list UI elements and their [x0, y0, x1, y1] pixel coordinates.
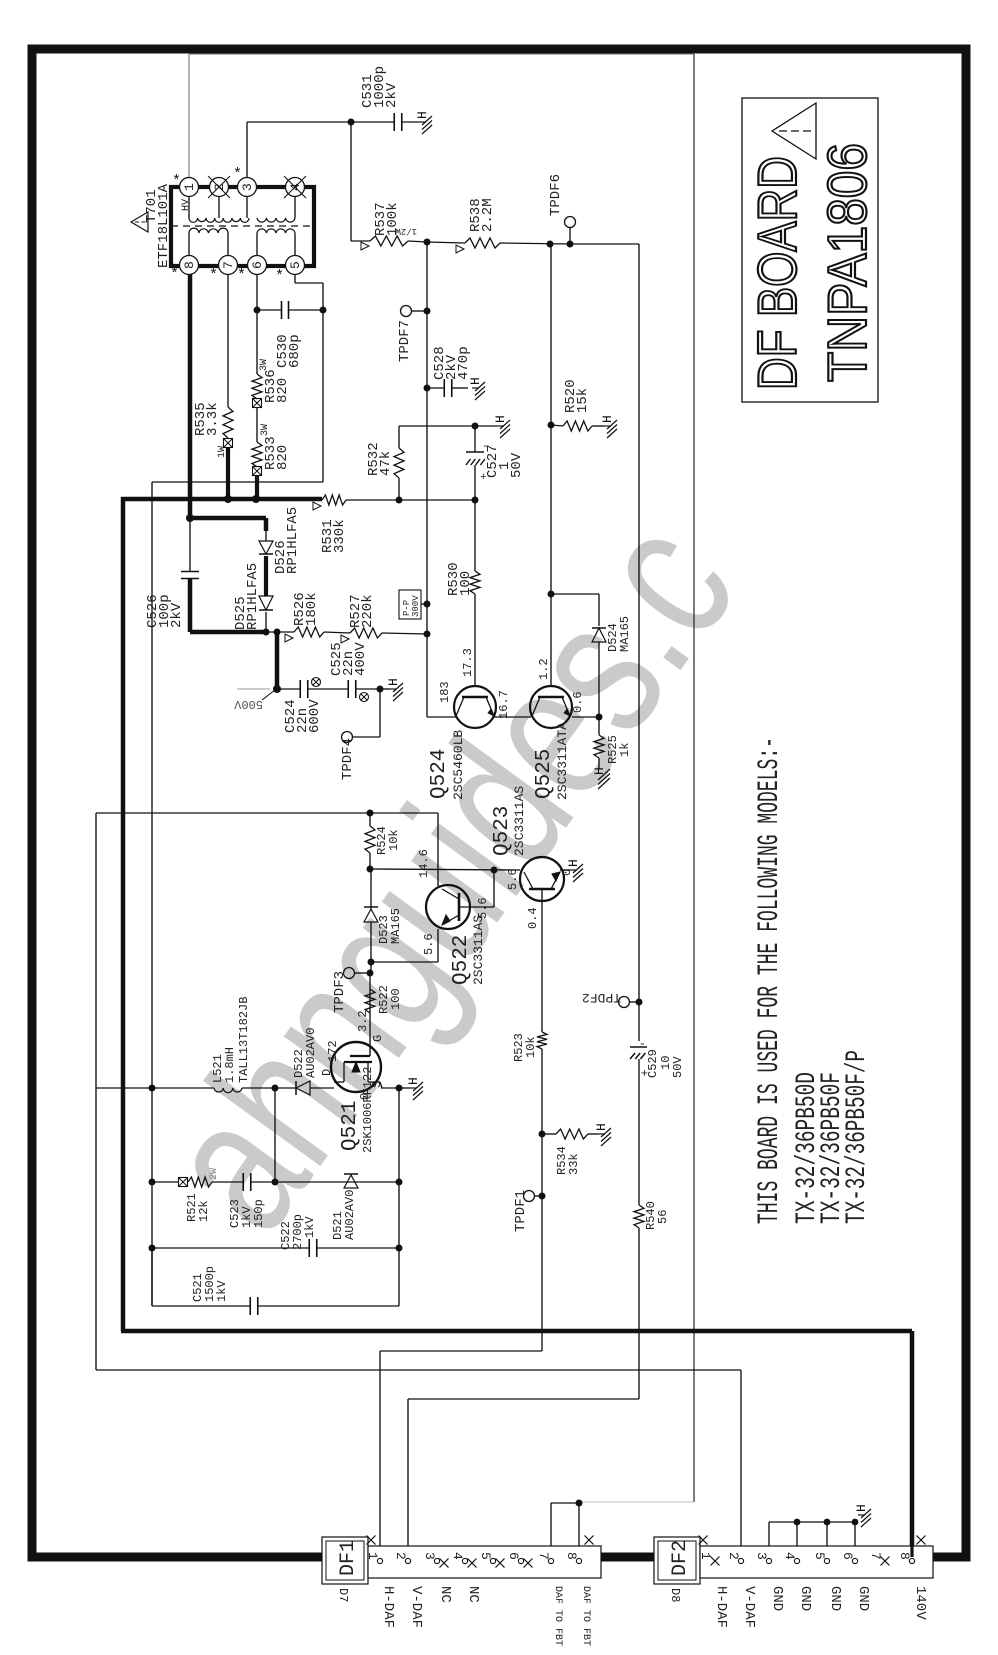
- wire Q521 source to ground node: [380, 1082, 382, 1088]
- svg-text:15k: 15k: [575, 388, 591, 413]
- diode D521 AU02AV0: [344, 1173, 358, 1175]
- wire R537 to R538: [408, 241, 427, 242]
- svg-text:MA165: MA165: [389, 908, 403, 944]
- capacitor C521 1500p 1kV: [151, 1248, 153, 1306]
- svg-text:680p: 680p: [287, 334, 303, 368]
- svg-text:2SK1006RF122: 2SK1006RF122: [361, 1067, 375, 1153]
- junction R520: [548, 422, 555, 429]
- svg-text:C529: C529: [646, 1049, 660, 1078]
- svg-text:*: *: [233, 166, 242, 183]
- svg-text:H-DAF: H-DAF: [380, 1586, 396, 1628]
- wire Q525 emitter node: [572, 716, 599, 718]
- svg-text:TX-32/36PB50F/P: TX-32/36PB50F/P: [842, 1050, 873, 1224]
- ground at R534: [588, 1133, 598, 1135]
- resistor R536 820 3W: [252, 374, 262, 399]
- svg-text:GND: GND: [855, 1586, 871, 1611]
- svg-text:8: 8: [182, 261, 197, 269]
- svg-text:NC: NC: [465, 1586, 481, 1603]
- wire pin3 to C531 node: [246, 122, 248, 178]
- svg-text:MA165: MA165: [618, 616, 632, 652]
- resistor R535 3.3k 1W: [223, 407, 233, 438]
- svg-text:1k: 1k: [618, 743, 632, 757]
- resistor R527 220k: [382, 633, 427, 634]
- wire to L521 line: [96, 1087, 152, 1089]
- svg-text:2W: 2W: [209, 1168, 220, 1180]
- wire Q524 emitter to Q525: [494, 716, 531, 718]
- svg-text:GND: GND: [797, 1586, 813, 1611]
- ground at R520: [592, 425, 604, 427]
- svg-text:33k: 33k: [567, 1153, 581, 1175]
- svg-text:3W: 3W: [259, 359, 270, 371]
- test point TPDF1: [524, 1191, 535, 1202]
- wire V-DAF bottom to DF2 pin2: [96, 1369, 741, 1371]
- wire pin6 down: [256, 274, 258, 374]
- svg-text:3.2: 3.2: [356, 1010, 370, 1032]
- svg-text:*: *: [237, 267, 246, 284]
- resistor R522 100: [365, 989, 375, 1013]
- svg-text:H: H: [415, 111, 430, 119]
- pin 5: [286, 256, 305, 275]
- svg-text:2kV: 2kV: [169, 602, 185, 628]
- wire DF2 ground pins: [768, 1522, 770, 1547]
- wire base Q524: [427, 716, 456, 718]
- wire Q525 base from node: [550, 594, 552, 686]
- svg-text:*: *: [170, 266, 179, 283]
- wire Q522 base: [459, 906, 494, 908]
- svg-text:C527: C527: [485, 444, 501, 478]
- junction: [254, 307, 261, 314]
- svg-text:-: -: [639, 1037, 646, 1051]
- capacitor C527 1 50V electrolytic: [474, 426, 476, 452]
- resistor R532 47k: [394, 448, 404, 478]
- svg-text:220k: 220k: [360, 594, 376, 628]
- svg-text:GND: GND: [827, 1586, 843, 1611]
- svg-text:300V: 300V: [411, 595, 421, 617]
- thick wire R533 to bus: [255, 475, 259, 499]
- capacitor C524 22n 600V: [277, 688, 300, 690]
- junction R533 bottom: [252, 495, 260, 503]
- diode D524 MA165: [592, 628, 606, 642]
- wire Q522 collector: [437, 813, 439, 886]
- svg-text:12k: 12k: [197, 1200, 211, 1222]
- svg-text:H: H: [854, 1504, 869, 1512]
- svg-text:2: 2: [726, 1552, 741, 1560]
- wire top of drive box: [96, 812, 438, 814]
- wire to DF1 pin1: [541, 1196, 543, 1351]
- junction: [149, 1085, 156, 1092]
- wire R536 to R533: [256, 407, 258, 442]
- svg-text:500V: 500V: [233, 697, 263, 711]
- svg-text:2SC5460LB: 2SC5460LB: [451, 730, 466, 800]
- svg-text:TPDF4: TPDF4: [340, 738, 356, 780]
- svg-text:1kV: 1kV: [215, 1280, 229, 1302]
- svg-text:820: 820: [275, 445, 291, 470]
- resistor R530 100: [474, 500, 476, 571]
- pin 4: [286, 178, 305, 197]
- junction: [274, 629, 281, 636]
- svg-text:2SC3311AS: 2SC3311AS: [471, 915, 486, 985]
- wire base line y869: [371, 869, 520, 870]
- svg-text:3: 3: [754, 1552, 769, 1560]
- junction: [636, 999, 643, 1006]
- svg-text:6: 6: [840, 1552, 855, 1560]
- thick wire down to C524 node: [275, 632, 280, 689]
- svg-text:*: *: [275, 268, 284, 285]
- wire Q523 emitter chain down: [541, 889, 543, 1032]
- svg-text:DAF TO FBT: DAF TO FBT: [580, 1586, 591, 1646]
- thick wire C526 bottom: [188, 579, 193, 632]
- resistor R521 12k 2W: [179, 1178, 188, 1187]
- svg-text:Q523: Q523: [491, 806, 514, 856]
- wire R538 to TPDF6 node: [500, 243, 570, 244]
- capacitor C528 2kV 470p: [427, 387, 444, 389]
- svg-text:6: 6: [250, 261, 265, 269]
- wire pin7 down: [227, 274, 229, 407]
- junction: [596, 714, 603, 721]
- svg-text:D: D: [320, 1069, 334, 1076]
- wire y1182: [152, 1181, 179, 1183]
- svg-text:H: H: [468, 377, 483, 385]
- junction: [396, 1085, 403, 1092]
- svg-text:AU02AV0: AU02AV0: [304, 1028, 318, 1078]
- svg-text:H: H: [600, 415, 615, 423]
- svg-text:D7: D7: [336, 1588, 350, 1602]
- junction: [396, 1179, 403, 1186]
- capacitor C526 100p 2kV: [189, 518, 191, 571]
- diode D522 AU02AV0: [275, 1087, 296, 1089]
- svg-text:0.6: 0.6: [571, 691, 585, 713]
- capacitor C531 1000p 2kV: [351, 121, 394, 123]
- svg-text:TPDF7: TPDF7: [397, 320, 413, 362]
- transistor Q521 2SK1006RF122 MOSFET: [331, 1042, 381, 1092]
- junction: [367, 866, 374, 873]
- capacitor C522 2700p 1kV: [152, 1247, 309, 1249]
- svg-text:0.4: 0.4: [526, 907, 540, 929]
- wire to R534 node: [541, 1049, 543, 1196]
- junction R535 bottom: [224, 495, 232, 503]
- svg-text:1: 1: [698, 1552, 713, 1560]
- wire DF1 pins 7-8 to FBT line: [550, 1503, 552, 1547]
- ground at C525: [380, 688, 390, 690]
- svg-text:DF1: DF1: [337, 1540, 360, 1576]
- junction: [424, 385, 431, 392]
- pin 1: [180, 178, 199, 197]
- junction: [424, 239, 431, 246]
- svg-text:2.2M: 2.2M: [480, 198, 496, 232]
- svg-text:8: 8: [564, 1552, 579, 1560]
- diode D523 MA165: [370, 869, 372, 909]
- svg-text:V-DAF: V-DAF: [741, 1586, 757, 1628]
- svg-text:H: H: [566, 859, 581, 867]
- svg-text:1/2W: 1/2W: [395, 226, 417, 236]
- junction: [368, 959, 375, 966]
- capacitor C530 680p: [257, 309, 281, 311]
- svg-text:TNPA1806: TNPA1806: [816, 143, 878, 382]
- svg-text:56: 56: [656, 1210, 670, 1224]
- transistor Q523 2SC3311AS: [520, 857, 564, 901]
- svg-text:*: *: [172, 173, 181, 190]
- svg-text:Q525: Q525: [533, 749, 556, 799]
- wire R531 to C527 node: [346, 499, 475, 501]
- test point TPDF6: [565, 217, 576, 228]
- resistor R520 15k: [551, 425, 563, 426]
- thick wire from pin8: [188, 274, 193, 518]
- svg-text:G: G: [371, 1035, 385, 1042]
- svg-text:V-DAF: V-DAF: [408, 1586, 424, 1628]
- resistor R525 1k: [598, 717, 600, 735]
- svg-text:1: 1: [182, 183, 197, 191]
- svg-text:16.7: 16.7: [497, 690, 511, 719]
- svg-text:DF2: DF2: [669, 1540, 692, 1576]
- ground at Q521: [399, 1087, 410, 1089]
- junction: [576, 1500, 583, 1507]
- svg-text:7: 7: [868, 1552, 883, 1560]
- wire 140V stub: [910, 1546, 913, 1557]
- wire TPDF3 node: [370, 962, 372, 973]
- svg-text:TPDF3: TPDF3: [332, 971, 348, 1013]
- svg-text:5.6: 5.6: [506, 868, 520, 890]
- junction: [149, 1245, 156, 1252]
- thick corner to diodes: [186, 514, 194, 522]
- svg-text:TPDF2: TPDF2: [582, 990, 621, 1005]
- junction: [472, 423, 479, 430]
- wire D525 node to R526: [266, 631, 294, 633]
- gray top line to pin1: [189, 53, 694, 55]
- svg-text:140V: 140V: [912, 1586, 928, 1620]
- svg-text:Q524: Q524: [428, 749, 451, 799]
- connector DF2: [654, 1537, 700, 1584]
- svg-text:H: H: [406, 1077, 421, 1085]
- diode D526 RP1HLFA5: [265, 529, 267, 541]
- thick 140V bus bottom: [121, 1329, 912, 1334]
- thick wire R535 to bus: [226, 447, 230, 499]
- capacitor C529 10 50V electrolytic: [630, 1046, 647, 1048]
- resistor R533 820 3W: [252, 442, 262, 467]
- resistor R523 10k: [537, 1032, 547, 1049]
- svg-text:7: 7: [536, 1552, 551, 1560]
- svg-text:100: 100: [389, 988, 403, 1010]
- svg-text:1.2: 1.2: [537, 658, 551, 680]
- transistor Q524 2SC5460LB: [454, 686, 496, 728]
- wire x427 rail lower: [426, 388, 428, 717]
- ground at Q523: [560, 869, 570, 871]
- warning triangle at T701: [131, 212, 148, 232]
- wire R532 top to ground: [399, 425, 475, 427]
- svg-text:TALL13T182JB: TALL13T182JB: [237, 997, 251, 1083]
- gray wire to DF1 pins 7-8: [579, 1501, 694, 1503]
- wire gate chain x370: [369, 973, 371, 1045]
- junction: [567, 241, 574, 248]
- svg-text:820: 820: [275, 378, 291, 403]
- svg-text:HV: HV: [181, 199, 192, 211]
- svg-text:5: 5: [478, 1552, 493, 1560]
- svg-text:400V: 400V: [353, 642, 369, 676]
- transistor Q525 2SC3311ATA: [530, 686, 572, 728]
- junction: [273, 685, 281, 693]
- svg-text:180k: 180k: [304, 592, 320, 626]
- junction: [320, 307, 327, 314]
- pin 8: [180, 256, 199, 275]
- test point TPDF2: [619, 997, 630, 1008]
- wire x399: [398, 1088, 400, 1248]
- junction: [396, 497, 403, 504]
- wire C531 node down: [350, 122, 352, 241]
- transformer T701 ETF18L101A: [171, 187, 314, 266]
- capacitor C523 1kV 150p: [242, 1173, 244, 1191]
- svg-text:*: *: [209, 267, 218, 284]
- svg-text:14.6: 14.6: [417, 849, 431, 878]
- transistor Q522 2SC3311AS: [426, 885, 470, 929]
- junction: [263, 629, 270, 636]
- svg-text:2: 2: [393, 1552, 408, 1560]
- svg-text:50V: 50V: [671, 1056, 685, 1078]
- thick bus from bus corner to R531: [121, 497, 126, 1331]
- resistor R537 100k 1/2W: [351, 240, 370, 242]
- junction: [377, 686, 384, 693]
- wire R540 to DF1 pin2: [638, 1228, 640, 1399]
- title block DF BOARD TNPA1806: [742, 98, 878, 402]
- svg-text:RP1HLFA5: RP1HLFA5: [285, 507, 301, 574]
- wire x427 rail upper: [426, 242, 428, 388]
- svg-text:183: 183: [438, 681, 452, 703]
- junction: [424, 308, 431, 315]
- wire right edge down: [693, 54, 695, 1502]
- svg-text:DAF TO FBT: DAF TO FBT: [552, 1586, 563, 1646]
- junction: [367, 970, 374, 977]
- svg-text:5: 5: [288, 261, 303, 269]
- test point TPDF4: [342, 732, 353, 743]
- svg-text:GND: GND: [769, 1586, 785, 1611]
- svg-text:1kV: 1kV: [303, 1216, 317, 1238]
- pin 2: [210, 178, 229, 197]
- inductor L521 1.8mH TALL13T182JB: [152, 1087, 214, 1089]
- svg-text:2SC3311ATA: 2SC3311ATA: [555, 722, 570, 800]
- svg-text:6: 6: [506, 1552, 521, 1560]
- junction: [548, 591, 555, 598]
- pin 6: [248, 256, 267, 275]
- wire x275: [274, 1088, 276, 1182]
- wire to right rail: [570, 243, 639, 245]
- svg-text:17.3: 17.3: [461, 648, 475, 677]
- resistor R531 330k: [322, 495, 346, 505]
- svg-text:330k: 330k: [332, 519, 348, 553]
- svg-text:ETF18L101A: ETF18L101A: [156, 183, 172, 268]
- junction: [272, 1085, 279, 1092]
- svg-text:5: 5: [812, 1552, 827, 1560]
- svg-text:10k: 10k: [524, 1036, 538, 1058]
- resistor R540 56: [634, 1205, 644, 1228]
- svg-text:3.3k: 3.3k: [205, 402, 221, 436]
- svg-text:3: 3: [240, 183, 255, 191]
- svg-text:Q522: Q522: [450, 935, 473, 985]
- svg-text:H: H: [386, 678, 401, 686]
- junction: [424, 631, 431, 638]
- wire node to D524: [551, 593, 599, 595]
- svg-text:NC: NC: [437, 1586, 453, 1603]
- svg-text:1.8mH: 1.8mH: [223, 1047, 237, 1083]
- wire right rail down x639: [638, 244, 640, 1041]
- wire secondary return: [152, 481, 323, 483]
- svg-text:8: 8: [897, 1552, 912, 1560]
- svg-text:470p: 470p: [456, 346, 472, 380]
- svg-text:50V: 50V: [509, 452, 525, 478]
- diode D525 RP1HLFA5: [259, 596, 273, 610]
- svg-text:5.6: 5.6: [422, 933, 436, 955]
- wire Q522 emitter to node: [437, 929, 439, 962]
- junction: [396, 1245, 403, 1252]
- pin 3: [238, 178, 257, 197]
- svg-text:100: 100: [458, 571, 474, 596]
- resistor R534 33k: [542, 1133, 556, 1135]
- wire V-DAF rail x96: [95, 813, 97, 1370]
- svg-text:TPDF1: TPDF1: [513, 1190, 529, 1232]
- ground at C527 top: [475, 425, 497, 427]
- junction: [539, 1193, 546, 1200]
- wire pin5 route: [294, 274, 296, 283]
- svg-text:47k: 47k: [378, 451, 394, 476]
- connector DF1: [322, 1537, 368, 1584]
- resistor R538 2.2M: [427, 242, 465, 243]
- svg-text:D8: D8: [668, 1588, 682, 1602]
- junction: [491, 867, 498, 874]
- svg-text:DF BOARD: DF BOARD: [746, 156, 808, 390]
- capacitor C525 22n 400V: [347, 680, 349, 698]
- svg-text:600V: 600V: [307, 699, 323, 733]
- svg-text:H-DAF: H-DAF: [713, 1586, 729, 1628]
- junction: [424, 601, 431, 608]
- junction: [272, 1179, 279, 1186]
- thick link D526-D525: [264, 556, 268, 596]
- node C531: [348, 119, 355, 126]
- resistor R524 10k: [369, 813, 371, 826]
- svg-text:172: 172: [326, 1040, 340, 1062]
- svg-text:3: 3: [422, 1552, 437, 1560]
- junction: [539, 1131, 546, 1138]
- wire node to x551 rail: [550, 244, 552, 594]
- svg-text:7: 7: [221, 261, 236, 269]
- svg-text:H: H: [493, 415, 508, 423]
- junction: [547, 241, 554, 248]
- svg-text:THIS BOARD IS USED FOR THE FOL: THIS BOARD IS USED FOR THE FOLLOWING MOD…: [753, 737, 787, 1224]
- svg-text:TPDF6: TPDF6: [548, 174, 564, 216]
- svg-text:3W: 3W: [260, 424, 271, 436]
- junction: [472, 497, 479, 504]
- svg-text:RP1HLFA5: RP1HLFA5: [245, 563, 261, 630]
- test point TPDF3: [344, 968, 355, 979]
- pin 7: [219, 256, 238, 275]
- svg-text:2kV: 2kV: [384, 82, 400, 108]
- svg-text:Q521: Q521: [339, 1101, 362, 1151]
- test point TPDF7: [401, 306, 412, 317]
- svg-text:H: H: [594, 1123, 609, 1131]
- label box P-P 300V: [399, 590, 421, 619]
- svg-text:150p: 150p: [252, 1199, 266, 1228]
- svg-text:AU02AV0: AU02AV0: [343, 1190, 357, 1240]
- svg-text:10k: 10k: [387, 829, 401, 851]
- junction: [149, 1179, 156, 1186]
- svg-text:2SC3311AS: 2SC3311AS: [512, 786, 527, 856]
- resistor R526 180k: [324, 632, 350, 633]
- junction: [367, 810, 374, 817]
